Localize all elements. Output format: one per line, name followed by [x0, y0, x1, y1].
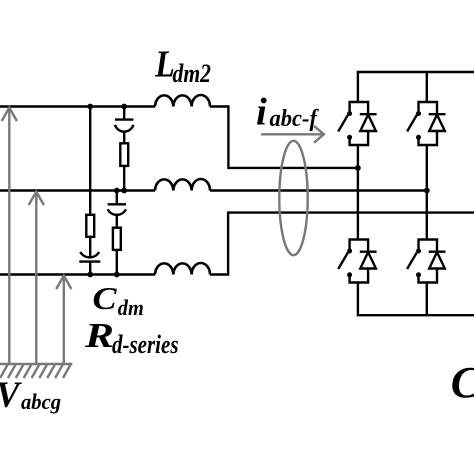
svg-text:abc-f: abc-f — [270, 106, 319, 132]
svg-text:d-series: d-series — [112, 330, 179, 359]
svg-text:dm: dm — [118, 295, 144, 320]
svg-text:C: C — [93, 280, 118, 316]
svg-text:R: R — [84, 316, 114, 355]
svg-text:i: i — [256, 90, 267, 133]
svg-text:dm2: dm2 — [173, 59, 212, 88]
svg-text:C: C — [451, 358, 474, 407]
svg-text:abcg: abcg — [21, 389, 61, 414]
svg-text:V: V — [0, 375, 23, 416]
